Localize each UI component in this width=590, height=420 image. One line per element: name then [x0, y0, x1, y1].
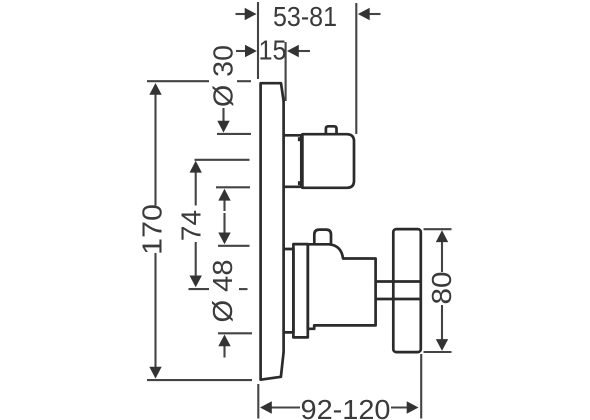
Ø30 bottom extension line — [216, 186, 250, 188]
80 bottom extension line — [424, 351, 452, 353]
arrow 170 top — [149, 83, 161, 95]
Ø30 top extension line — [217, 133, 251, 135]
arrow 92-120 right — [407, 401, 419, 413]
svg-text:15: 15 — [259, 35, 287, 66]
arrow Ø48 bottom (points up) — [218, 335, 230, 347]
svg-text:80: 80 — [426, 272, 457, 305]
80 top extension line — [424, 228, 452, 230]
extension line C (plate front, 15 dim) — [285, 42, 287, 101]
arrow 170 bottom — [149, 367, 161, 379]
lower sleeve ring — [293, 244, 307, 337]
92-120 right extension line — [420, 354, 422, 419]
svg-text:170: 170 — [137, 204, 168, 255]
svg-text:Ø 30: Ø 30 — [208, 45, 239, 107]
arrow 15 right — [287, 45, 299, 57]
arrow 74 bottom — [190, 276, 202, 288]
upper sleeve lip tick bottom — [298, 181, 300, 185]
extension line B (upper handle front, top) — [355, 3, 357, 134]
dimension 53-81 shafts — [236, 13, 247, 15]
74 top centerline — [195, 159, 250, 161]
upper handle sleeve — [284, 135, 302, 187]
wall plate (side view) — [261, 83, 284, 380]
arrow Ø30 bottom (points up) — [218, 189, 230, 201]
safety override button bump — [314, 230, 331, 245]
arrow 80 bottom — [436, 339, 448, 351]
arrow 53-81 right — [358, 8, 370, 20]
arrow 74 top — [190, 161, 202, 173]
handle stem top line — [376, 280, 421, 283]
80 dimension line (broken at text) — [441, 240, 443, 272]
92-120 left extension line — [257, 384, 259, 419]
arrow 15 left — [245, 45, 257, 57]
svg-text:53-81: 53-81 — [273, 1, 337, 32]
upper sleeve lip tick top — [298, 137, 300, 141]
Ø30 upper arrow shaft — [222, 108, 224, 124]
170 top extension line (broken at Ø30 text) — [147, 80, 209, 82]
Ø30 lower arrow shaft — [223, 198, 225, 211]
lower flange ring — [283, 249, 293, 332]
92-120 dimension shafts — [271, 406, 300, 408]
arrow 92-120 left — [260, 401, 272, 413]
170 dimension line (broken at text) — [154, 90, 156, 206]
arrow Ø48 top (points down) — [218, 233, 230, 245]
arrow 53-81 left — [245, 8, 257, 20]
extension line A (plate back, top) — [257, 2, 259, 79]
handle stem bottom line — [376, 298, 421, 301]
Ø48 lower arrow shaft — [223, 344, 225, 358]
cross handle bar — [393, 229, 421, 352]
Ø48 bottom extension line — [218, 332, 252, 334]
Ø48 upper arrow shaft — [223, 213, 225, 235]
svg-text:74: 74 — [176, 210, 207, 241]
74 bottom centerline (broken at Ø48 text) — [189, 288, 210, 290]
upper handle button tab — [326, 126, 337, 134]
lower thermostat body — [308, 244, 376, 328]
74 dimension line (broken at text) — [195, 170, 197, 206]
Ø48 top extension line — [218, 245, 250, 247]
170 bottom extension line — [147, 379, 252, 381]
svg-text:Ø 48: Ø 48 — [207, 260, 238, 323]
upper handle (volume control) — [302, 134, 354, 188]
arrow Ø30 top (points down) — [217, 121, 229, 133]
dimension 15 shafts — [236, 50, 247, 52]
svg-text:92-120: 92-120 — [301, 394, 391, 420]
arrow 80 top — [436, 230, 448, 242]
